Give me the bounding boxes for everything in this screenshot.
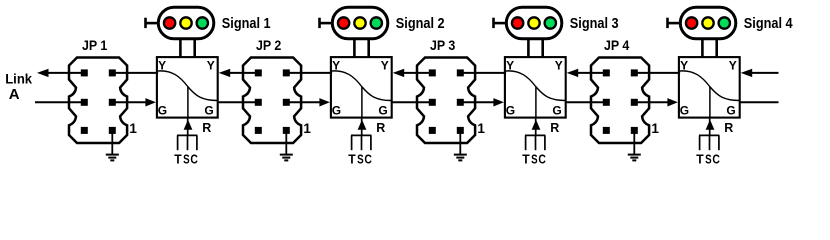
signal head SIG4 stub tick bbox=[666, 18, 669, 28]
signal head SIG2 right leg wire bbox=[367, 39, 370, 57]
wire: JP1 to driver box 1 (Y row) bbox=[112, 72, 158, 74]
wire: driver box 1 Y output to JP2 (arrow into box 1) bbox=[219, 69, 259, 77]
wire: JP1 to driver box 1 (G row) with right arrowhead bbox=[112, 98, 156, 106]
JP2 pin row2 left bbox=[255, 99, 262, 106]
svg-text:S: S bbox=[531, 153, 538, 167]
svg-text:1: 1 bbox=[477, 121, 485, 136]
svg-text:R: R bbox=[202, 121, 211, 135]
wire: driver box 3 G row to JP4 bbox=[566, 101, 607, 103]
signal head SIG1 right leg wire bbox=[193, 39, 196, 57]
svg-text:C: C bbox=[538, 153, 546, 167]
TSC leg C (unit 3) bbox=[544, 135, 546, 150]
signal head SIG1 green lamp bbox=[197, 17, 208, 28]
signal head SIG1 left leg wire bbox=[179, 39, 182, 57]
svg-text:Signal 2: Signal 2 bbox=[396, 15, 445, 32]
signal head SIG1 stub wire bbox=[145, 22, 159, 25]
jumper block JP3 outline bbox=[417, 58, 475, 144]
TSC leg S (unit 4) bbox=[709, 135, 711, 150]
JP1 pin row3 right bbox=[109, 127, 116, 134]
signal head SIG4 left leg wire bbox=[701, 39, 704, 57]
JP2 pin row3 left bbox=[255, 127, 262, 134]
JP4 pin row2 right bbox=[631, 99, 638, 106]
wire: driver box 2 Y output to JP3 (arrow into box 2) bbox=[393, 69, 433, 77]
signal head SIG3 green lamp bbox=[545, 17, 556, 28]
JP2 pin row1 left bbox=[255, 69, 262, 76]
svg-text:G: G bbox=[332, 103, 341, 117]
svg-text:1: 1 bbox=[303, 121, 311, 136]
JP1 pin row3 left bbox=[81, 127, 88, 134]
TSC harness bar (unit 3) bbox=[525, 134, 545, 136]
U1 transfer curve bbox=[157, 71, 217, 101]
signal driver box U1 outline bbox=[157, 57, 218, 118]
svg-text:1: 1 bbox=[129, 121, 137, 136]
JP1 pin row1 right bbox=[109, 69, 116, 76]
svg-text:G: G bbox=[680, 103, 689, 117]
TSC leg S (unit 2) bbox=[361, 135, 363, 150]
signal head SIG3 red lamp bbox=[512, 17, 523, 28]
jumper block JP1 outline bbox=[69, 58, 127, 144]
svg-text:JP 1: JP 1 bbox=[82, 37, 107, 53]
JP3 pin row2 left bbox=[429, 99, 436, 106]
svg-text:S: S bbox=[705, 153, 712, 167]
U3 transfer curve bbox=[505, 71, 565, 101]
svg-text:S: S bbox=[183, 153, 190, 167]
wire: Link A incoming (G row) to JP1 bbox=[35, 101, 84, 103]
TSC leg C (unit 1) bbox=[196, 135, 198, 150]
svg-text:C: C bbox=[364, 153, 372, 167]
signal head SIG3 yellow lamp bbox=[528, 17, 539, 28]
TSC leg C (unit 4) bbox=[718, 135, 720, 150]
signal driver box U4 outline bbox=[679, 57, 740, 118]
svg-text:Link: Link bbox=[5, 70, 32, 86]
TSC leg T (unit 4) bbox=[699, 135, 701, 150]
JP4 pin row3 left bbox=[603, 127, 610, 134]
jumper block JP4 outline bbox=[591, 58, 649, 144]
signal head SIG2 left leg wire bbox=[353, 39, 356, 57]
signal head SIG2 red lamp bbox=[338, 17, 349, 28]
svg-text:T: T bbox=[522, 153, 530, 167]
signal head SIG4 red lamp bbox=[686, 17, 697, 28]
svg-text:G: G bbox=[378, 103, 387, 117]
svg-text:JP 2: JP 2 bbox=[256, 37, 281, 53]
jumper block JP2 outline bbox=[243, 58, 301, 144]
svg-text:G: G bbox=[726, 103, 735, 117]
signal head SIG4 yellow lamp bbox=[702, 17, 713, 28]
svg-text:R: R bbox=[550, 121, 559, 135]
svg-text:R: R bbox=[724, 121, 733, 135]
TSC harness bar (unit 2) bbox=[351, 134, 371, 136]
signal head SIG1 housing bbox=[158, 7, 214, 39]
wire: JP2 to driver box 2 (Y row) bbox=[286, 72, 332, 74]
signal head SIG4 stub wire bbox=[667, 22, 681, 25]
JP4 pin row1 left bbox=[603, 69, 610, 76]
TSC harness bar (unit 4) bbox=[699, 134, 719, 136]
signal head SIG3 stub tick bbox=[492, 18, 495, 28]
JP3 pin row3 right bbox=[457, 127, 464, 134]
JP1 pin row2 left bbox=[81, 99, 88, 106]
signal head SIG3 housing bbox=[506, 7, 562, 39]
svg-text:G: G bbox=[204, 103, 213, 117]
TSC leg T (unit 3) bbox=[525, 135, 527, 150]
svg-text:C: C bbox=[712, 153, 720, 167]
JP4 pin row1 right bbox=[631, 69, 638, 76]
svg-text:JP 3: JP 3 bbox=[430, 37, 455, 53]
signal head SIG1 stub tick bbox=[144, 18, 147, 28]
TSC leg T (unit 2) bbox=[351, 135, 353, 150]
TSC leg S (unit 3) bbox=[535, 135, 537, 150]
JP2 pin row1 right bbox=[283, 69, 290, 76]
svg-text:G: G bbox=[158, 103, 167, 117]
TSC leg S (unit 1) bbox=[187, 135, 189, 150]
signal head SIG2 housing bbox=[332, 7, 388, 39]
svg-text:Y: Y bbox=[729, 59, 737, 73]
wire: Link A outgoing (Y row) with left arrowhead bbox=[37, 69, 84, 77]
U4 transfer curve bbox=[679, 71, 739, 101]
svg-text:G: G bbox=[506, 103, 515, 117]
wire: driver box 1 G row to JP2 bbox=[218, 101, 259, 103]
JP2 pin row3 right bbox=[283, 127, 290, 134]
svg-text:S: S bbox=[357, 153, 364, 167]
JP3 pin row1 right bbox=[457, 69, 464, 76]
JP3 pin row3 left bbox=[429, 127, 436, 134]
signal driver box U3 outline bbox=[505, 57, 566, 118]
JP4 pin row2 left bbox=[603, 99, 610, 106]
U2 curve to TSC-input line bbox=[361, 87, 363, 118]
JP3 pin row2 right bbox=[457, 99, 464, 106]
svg-text:C: C bbox=[190, 153, 198, 167]
wire: driver box 3 Y output to JP4 (arrow into box 3) bbox=[567, 69, 607, 77]
U3 curve to TSC-input line bbox=[535, 87, 537, 118]
signal head SIG2 stub wire bbox=[319, 22, 333, 25]
ground symbol below JP4 bbox=[628, 130, 641, 160]
wire: JP2 to driver box 2 (G row) with right arrowhead bbox=[286, 98, 330, 106]
ground symbol below JP1 bbox=[106, 130, 119, 160]
svg-text:G: G bbox=[552, 103, 561, 117]
svg-text:T: T bbox=[174, 153, 182, 167]
svg-text:JP 4: JP 4 bbox=[604, 37, 629, 53]
svg-text:T: T bbox=[696, 153, 704, 167]
ground symbol below JP2 bbox=[280, 130, 293, 160]
svg-text:A: A bbox=[9, 86, 20, 103]
signal head SIG2 stub tick bbox=[318, 18, 321, 28]
signal head SIG4 housing bbox=[680, 7, 736, 39]
svg-text:Signal 3: Signal 3 bbox=[570, 15, 619, 32]
wire: JP3 to driver box 3 (G row) with right arrowhead bbox=[460, 98, 504, 106]
svg-text:1: 1 bbox=[651, 121, 659, 136]
TSC leg C (unit 2) bbox=[370, 135, 372, 150]
wire: JP4 to driver box 4 (Y row) bbox=[634, 72, 680, 74]
signal driver box U2 outline bbox=[331, 57, 392, 118]
U2 transfer curve bbox=[331, 71, 391, 101]
svg-text:Y: Y bbox=[207, 59, 215, 73]
signal head SIG1 yellow lamp bbox=[180, 17, 191, 28]
TSC input arrow into U1 bbox=[184, 119, 193, 136]
wire: JP3 to driver box 3 (Y row) bbox=[460, 72, 506, 74]
signal head SIG2 yellow lamp bbox=[354, 17, 365, 28]
TSC leg T (unit 1) bbox=[177, 135, 179, 150]
wire: driver box 2 G row to JP3 bbox=[392, 101, 433, 103]
wire: link continues right (Y row) with arrow into box 4 bbox=[741, 69, 779, 77]
svg-text:Y: Y bbox=[555, 59, 563, 73]
TSC harness bar (unit 1) bbox=[177, 134, 197, 136]
U4 curve to TSC-input line bbox=[709, 87, 711, 118]
JP1 pin row1 left bbox=[81, 69, 88, 76]
signal head SIG1 red lamp bbox=[164, 17, 175, 28]
wire: JP4 to driver box 4 (G row) with right arrowhead bbox=[634, 98, 678, 106]
svg-text:T: T bbox=[348, 153, 356, 167]
JP4 pin row3 right bbox=[631, 127, 638, 134]
svg-text:Y: Y bbox=[381, 59, 389, 73]
svg-text:Signal 4: Signal 4 bbox=[744, 15, 793, 32]
U1 curve to TSC-input line bbox=[187, 87, 189, 118]
signal head SIG2 green lamp bbox=[371, 17, 382, 28]
JP1 pin row2 right bbox=[109, 99, 116, 106]
signal head SIG3 right leg wire bbox=[541, 39, 544, 57]
JP2 pin row2 right bbox=[283, 99, 290, 106]
signal head SIG4 green lamp bbox=[719, 17, 730, 28]
svg-text:Signal 1: Signal 1 bbox=[222, 15, 271, 32]
JP3 pin row1 left bbox=[429, 69, 436, 76]
signal head SIG4 right leg wire bbox=[715, 39, 718, 57]
TSC input arrow into U4 bbox=[706, 119, 715, 136]
signal head SIG3 stub wire bbox=[493, 22, 507, 25]
signal head SIG3 left leg wire bbox=[527, 39, 530, 57]
TSC input arrow into U2 bbox=[358, 119, 367, 136]
svg-text:R: R bbox=[376, 121, 385, 135]
TSC input arrow into U3 bbox=[532, 119, 541, 136]
ground symbol below JP3 bbox=[454, 130, 467, 160]
wire: link continues right (G row) from box 4 bbox=[740, 101, 779, 103]
